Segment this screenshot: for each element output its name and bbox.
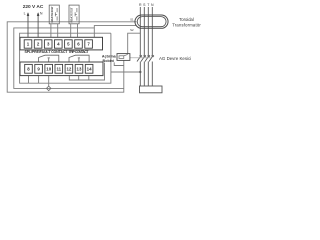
wire net3 wrap C: upper horizontal, riser down right of strip <box>20 33 111 83</box>
trip coil box <box>117 54 130 61</box>
wire T10 stub to diamond <box>48 76 50 87</box>
remote reset box <box>49 5 59 24</box>
L supply arrowhead <box>27 12 30 16</box>
svg-text:Bobini: Bobini <box>103 59 114 63</box>
terminal 5 <box>65 40 73 48</box>
wire T12 line to riser right of strip <box>69 63 104 80</box>
svg-text:10: 10 <box>46 67 51 72</box>
svg-text:220 V AC: 220 V AC <box>23 4 44 10</box>
remote reset button symbol <box>55 8 57 21</box>
wire T9 stub <box>38 76 40 84</box>
wire net2 wrap B: tee from riser, around left, bottom, join coil wire <box>14 28 124 89</box>
trip coil symbol inside <box>119 54 128 58</box>
wire L supply line to terminal 1 and N supply line to terminal 2 <box>28 13 38 37</box>
wire T13 stub <box>78 76 80 80</box>
wire T14 stub <box>88 76 90 80</box>
wire T8 stub <box>28 76 30 84</box>
terminal 4 <box>55 40 63 48</box>
svg-text:SPL/PRE/FAULT CONTACT: SPL/PRE/FAULT CONTACT <box>25 50 69 54</box>
TRIP changeover contact symbol <box>69 55 89 62</box>
terminal 7 <box>85 40 93 48</box>
bottom terminal strip outer rect <box>20 62 103 76</box>
terminal 9 <box>35 64 43 73</box>
terminal 14 <box>85 64 93 73</box>
svg-text:L: L <box>24 12 26 16</box>
breaker blades on phase lines <box>137 56 153 62</box>
svg-text:REMOTE RESET: REMOTE RESET <box>50 6 54 23</box>
toroidal transformer inner ring <box>137 17 166 27</box>
svg-text:S1: S1 <box>130 17 134 21</box>
svg-text:12: 12 <box>66 67 71 72</box>
svg-text:13: 13 <box>77 67 82 72</box>
terminal 10 <box>45 64 53 73</box>
toroidal transformer outer ring <box>135 15 168 28</box>
remote test button symbol <box>75 8 77 21</box>
phase line R <box>140 7 152 86</box>
remote test stubs to terminals 5 6 <box>71 24 78 38</box>
svg-text:Toroidal: Toroidal <box>179 17 194 22</box>
SPL changeover contact symbol <box>39 55 59 62</box>
wire net2 S2: toroid S2 to riser at terminal 7 <box>94 26 136 38</box>
wire net1 S1 wrap: toroid S1 left across top, down left edge, along bottom, up to trip coil bottom <box>7 22 136 92</box>
breaker blade ticks <box>140 55 155 57</box>
terminal 3 <box>44 40 52 48</box>
terminal 2 <box>34 40 42 48</box>
terminal 12 <box>65 64 73 73</box>
terminal numbers 8-14 <box>27 67 92 72</box>
svg-text:S2: S2 <box>130 28 134 32</box>
terminal 13 <box>75 64 83 73</box>
N supply arrowhead <box>37 12 40 16</box>
svg-text:REMOTE TEST: REMOTE TEST <box>70 7 74 23</box>
terminal 6 <box>75 40 83 48</box>
remote test box <box>69 5 79 24</box>
svg-text:AG Devre Kesici: AG Devre Kesici <box>159 56 191 61</box>
phase line S <box>143 7 145 86</box>
phase line N <box>151 7 153 86</box>
phase line T <box>147 7 149 86</box>
svg-text:Transformatör: Transformatör <box>172 23 201 28</box>
breaker box <box>140 86 163 93</box>
svg-text:11: 11 <box>56 67 61 72</box>
remote reset stubs to terminals 3 4 <box>51 24 58 38</box>
svg-text:14: 14 <box>87 67 92 72</box>
terminal numbers 1-7 <box>27 42 91 47</box>
wire tap to R phase at y72 <box>111 71 140 73</box>
wire coil top to phase R tap <box>128 33 141 53</box>
terminal 11 <box>55 64 63 73</box>
wire leader from Bobini label to coil wire <box>114 62 124 65</box>
svg-text:TRIP CONTACT: TRIP CONTACT <box>69 50 90 54</box>
top terminal strip outer rect <box>20 37 103 50</box>
breaker linkage from coil <box>130 57 151 59</box>
node R junction dot <box>139 71 141 73</box>
svg-text:N: N <box>40 12 43 16</box>
terminal 8 <box>25 64 93 73</box>
ground diamond below T10 <box>47 86 51 91</box>
terminal 1 <box>24 40 92 48</box>
